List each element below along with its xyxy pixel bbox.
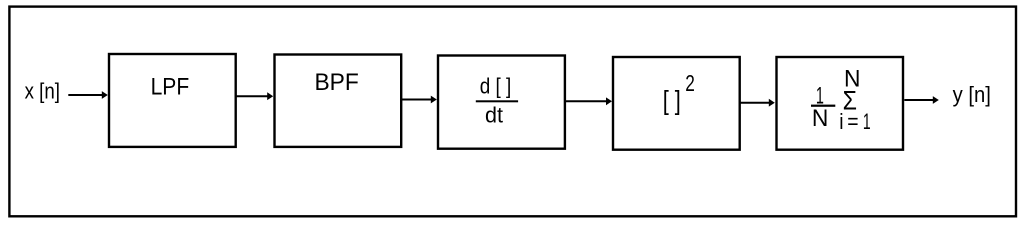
block averager (777, 57, 904, 150)
block LPF (109, 54, 236, 147)
fraction bar of 1/N (811, 105, 835, 107)
block BPF (275, 55, 402, 147)
wire: input arrow into LPF (68, 91, 108, 99)
svg-text:[ ]: [ ] (663, 86, 681, 116)
svg-text:dt: dt (485, 102, 503, 127)
wire: LPF to BPF (236, 92, 273, 100)
svg-text:2: 2 (685, 71, 695, 97)
block differentiator d[]/dt (438, 56, 565, 149)
svg-text:1: 1 (863, 108, 871, 133)
svg-text:y [n]: y [n] (953, 82, 991, 107)
svg-text:d [ ]: d [ ] (480, 74, 512, 99)
svg-text:=: = (847, 110, 858, 135)
fraction bar (476, 100, 518, 102)
wire: differentiator to squarer (566, 97, 612, 105)
wire: BPF to differentiator (402, 96, 437, 104)
wire: averager to output (904, 96, 939, 104)
wire: squarer to averager (740, 99, 775, 107)
svg-text:x [n]: x [n] (25, 80, 60, 104)
svg-text:N: N (844, 65, 860, 92)
svg-text:LPF: LPF (151, 72, 190, 100)
block squarer (613, 57, 740, 150)
svg-text:i: i (839, 110, 843, 135)
svg-text:N: N (812, 104, 828, 131)
svg-text:BPF: BPF (315, 69, 359, 96)
